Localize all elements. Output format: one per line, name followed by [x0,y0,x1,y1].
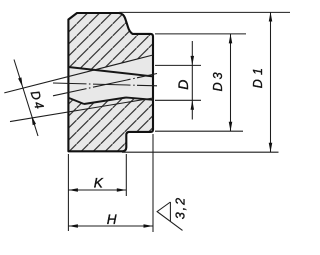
dimension D upper extension line [155,64,201,66]
part body fill (sectioned knob) [68,13,153,151]
center line, bore axis (dash-dot) [53,83,157,86]
taper cone line T2 (extended outside part for D4) [10,98,153,122]
part outline (chamfer, top edge, finger-groove notch, shoulder, step, bottom) [68,13,153,151]
dimension D3 lower extension line [155,130,243,132]
dimension D3 arrow lower [229,122,233,132]
dimension H arrow right [144,224,154,228]
dimension H arrow left [68,224,78,228]
dimension D3 line [230,34,232,131]
surface finish symbol closing bar [169,202,171,221]
dimension K arrow left [68,188,78,192]
dimension D line [191,41,193,120]
bore upper edge [68,67,153,76]
svg-text:D4: D4 [28,89,47,113]
dimension D1 arrow upper [269,12,273,22]
dimension H line [68,225,153,227]
dimension D lower extension line [155,99,201,101]
dimension K right extension line [125,154,127,196]
center line, tilted taper axis (dash-dot) [53,74,157,96]
dimension D4 arrow lower [32,116,37,126]
section hatching, upper material area [68,13,153,70]
dimension D4 line [14,60,38,137]
dimension D3 arrow upper [229,34,233,44]
dimension D1 lower extension line [122,151,279,153]
surface finish symbol check mark [157,202,182,230]
bore lower edge, left segment [68,98,84,104]
dimension D arrow lower [191,100,195,110]
bore lower edge, right segment [126,98,153,100]
bore lower edge, middle segment [84,98,126,105]
svg-text:H: H [107,212,117,227]
dimension D3 upper extension line [155,33,246,35]
K and H shared left extension line [67,154,69,231]
svg-text:K: K [94,175,104,190]
dimension K arrow right [117,188,127,192]
dimension D4 arrow upper [18,77,23,87]
dimension D arrow upper [191,56,195,66]
dimension D1 arrow lower [269,143,273,153]
dimension D1 upper extension line [119,11,290,13]
dimension H right extension line [152,134,154,232]
svg-text:3,2: 3,2 [173,196,187,219]
svg-text:D3: D3 [211,69,225,91]
taper cone line T1 (extended outside part for D4) [4,55,153,93]
svg-text:D1: D1 [251,64,265,88]
section hatching, lower material area [68,98,153,152]
svg-text:D: D [175,80,191,90]
dimension D1 line [270,12,272,152]
dimension K line [68,189,126,191]
